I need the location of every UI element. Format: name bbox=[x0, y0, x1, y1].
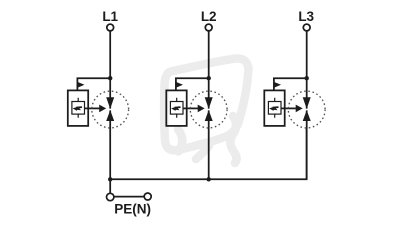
svg-text:L1: L1 bbox=[102, 9, 118, 24]
svg-text:PE(N): PE(N) bbox=[114, 201, 151, 216]
svg-text:L2: L2 bbox=[201, 9, 217, 24]
svg-text:L3: L3 bbox=[298, 9, 314, 24]
